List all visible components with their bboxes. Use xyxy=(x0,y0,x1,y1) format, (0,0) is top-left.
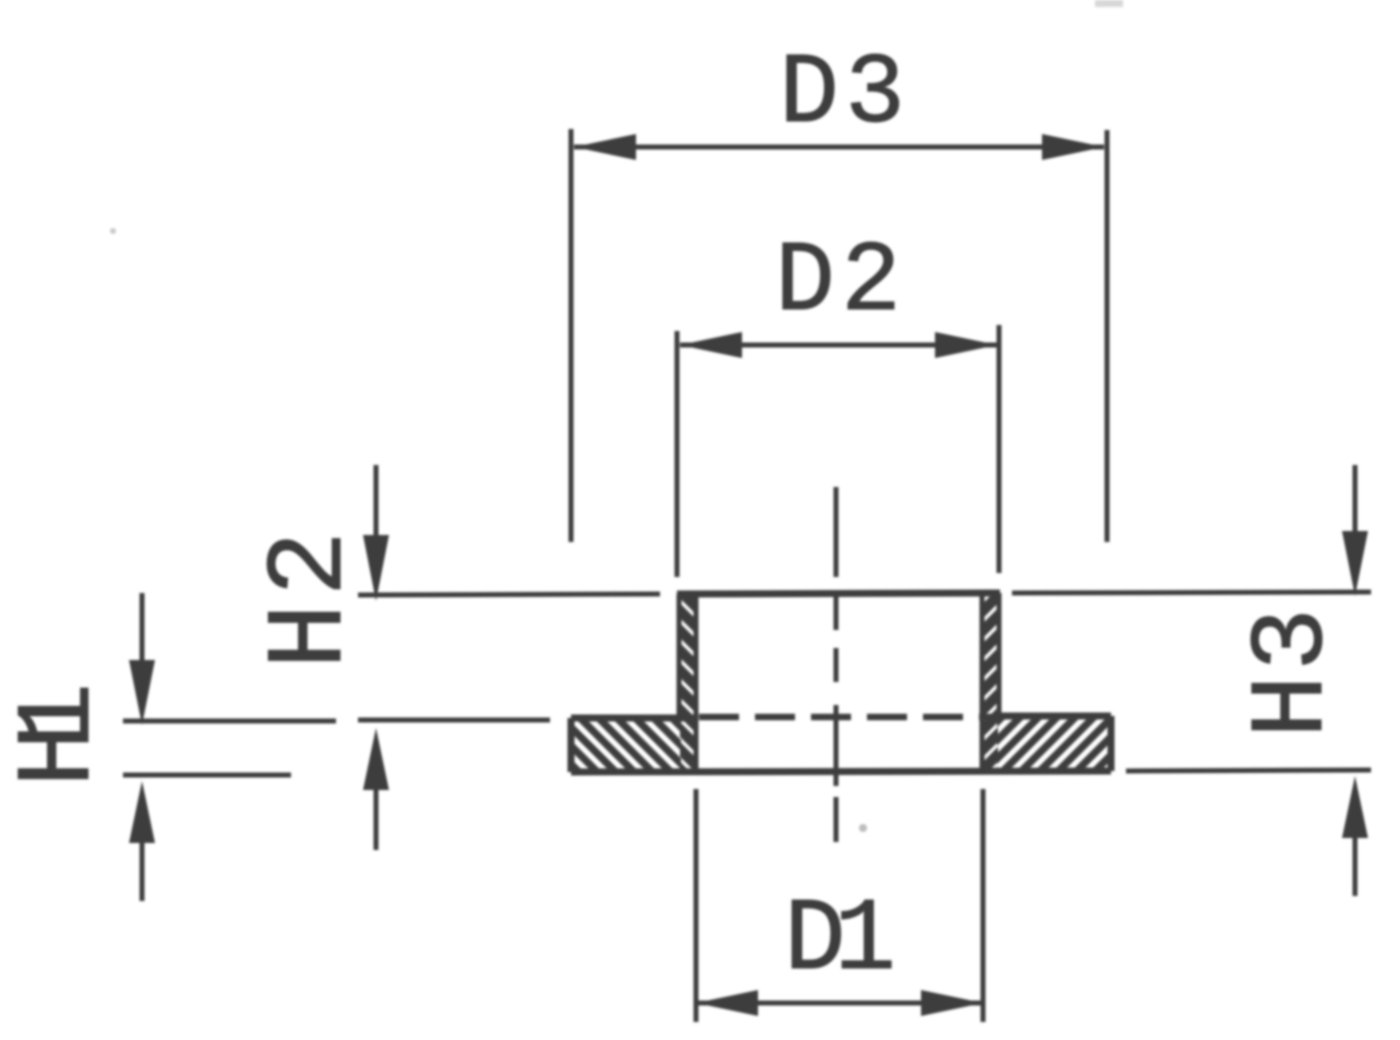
flange top edge right xyxy=(1000,713,1111,720)
dimension line H2 top tail xyxy=(374,465,379,538)
extension line D2 right xyxy=(997,325,1002,573)
boss top edge (part) xyxy=(677,593,1000,594)
arrowhead D3 right xyxy=(1042,134,1104,160)
center line (vertical dash-dot axis) xyxy=(834,487,839,842)
scan speck top-left xyxy=(110,228,116,234)
arrowhead H1 bottom xyxy=(129,781,155,843)
dimension line H1 bottom tail xyxy=(140,838,145,901)
scan smudge top-right xyxy=(1095,0,1123,7)
flange top edge left xyxy=(571,715,694,722)
dimension line D1 xyxy=(696,1001,983,1006)
hatched section: left boss wall xyxy=(680,594,695,771)
extension line D1 left xyxy=(694,789,699,1022)
extension line D2 left xyxy=(675,331,680,577)
arrowhead D1 right xyxy=(921,990,983,1016)
dimension line H1 top tail xyxy=(140,593,145,665)
H1 reference line top (flange top level) xyxy=(123,719,336,724)
boss top edge extension to H3 (right) xyxy=(1012,592,1371,593)
boss top edge extension to H2 (left) xyxy=(358,594,660,595)
dimension line D3 xyxy=(574,145,1104,150)
H1 reference line bottom (flange bottom level) xyxy=(123,773,291,778)
flange left edge xyxy=(568,718,575,772)
right bore edge xyxy=(980,593,985,771)
H2 reference line bottom (flange top level) xyxy=(358,718,550,723)
svg-text:H3: H3 xyxy=(1234,608,1353,738)
arrowhead H3 bottom xyxy=(1342,776,1368,838)
svg-text:H2: H2 xyxy=(249,531,373,669)
hidden line: flange top through bore (dashed) xyxy=(699,714,1000,721)
hatched section: left flange xyxy=(573,719,681,770)
arrowhead H3 top xyxy=(1342,531,1368,596)
flange right edge xyxy=(1108,716,1115,771)
arrowhead H2 bottom xyxy=(363,728,389,790)
extension line D3 left xyxy=(569,129,574,542)
extension line D3 right xyxy=(1105,130,1110,542)
flange bottom edge xyxy=(571,771,1111,772)
arrowhead D1 left xyxy=(696,990,758,1016)
hatched section: right flange xyxy=(997,718,1109,769)
hatched section: right boss wall xyxy=(983,593,998,770)
right boss wall outer edge xyxy=(997,593,1002,718)
H3 reference line bottom (flange bottom level, right extension) xyxy=(1126,770,1371,771)
dimension line D2 xyxy=(680,343,997,348)
scan speck below flange xyxy=(859,824,867,832)
left boss wall outer edge xyxy=(677,594,682,719)
arrowhead D3 left xyxy=(574,134,636,160)
svg-text:D2: D2 xyxy=(775,227,901,340)
arrowhead D2 right xyxy=(935,332,997,358)
svg-text:D1: D1 xyxy=(784,882,896,999)
dimension line H3 bottom tail xyxy=(1353,832,1358,896)
left bore edge xyxy=(694,594,699,772)
dimension line H2 bottom tail xyxy=(374,784,379,850)
arrowhead D2 left xyxy=(680,332,742,358)
arrowhead H1 top xyxy=(129,660,155,725)
svg-text:D3: D3 xyxy=(779,39,905,152)
dimension line H3 top tail xyxy=(1353,465,1358,534)
arrowhead H2 top xyxy=(363,535,389,601)
svg-text:H1: H1 xyxy=(0,683,120,787)
extension line D1 right xyxy=(981,789,986,1022)
